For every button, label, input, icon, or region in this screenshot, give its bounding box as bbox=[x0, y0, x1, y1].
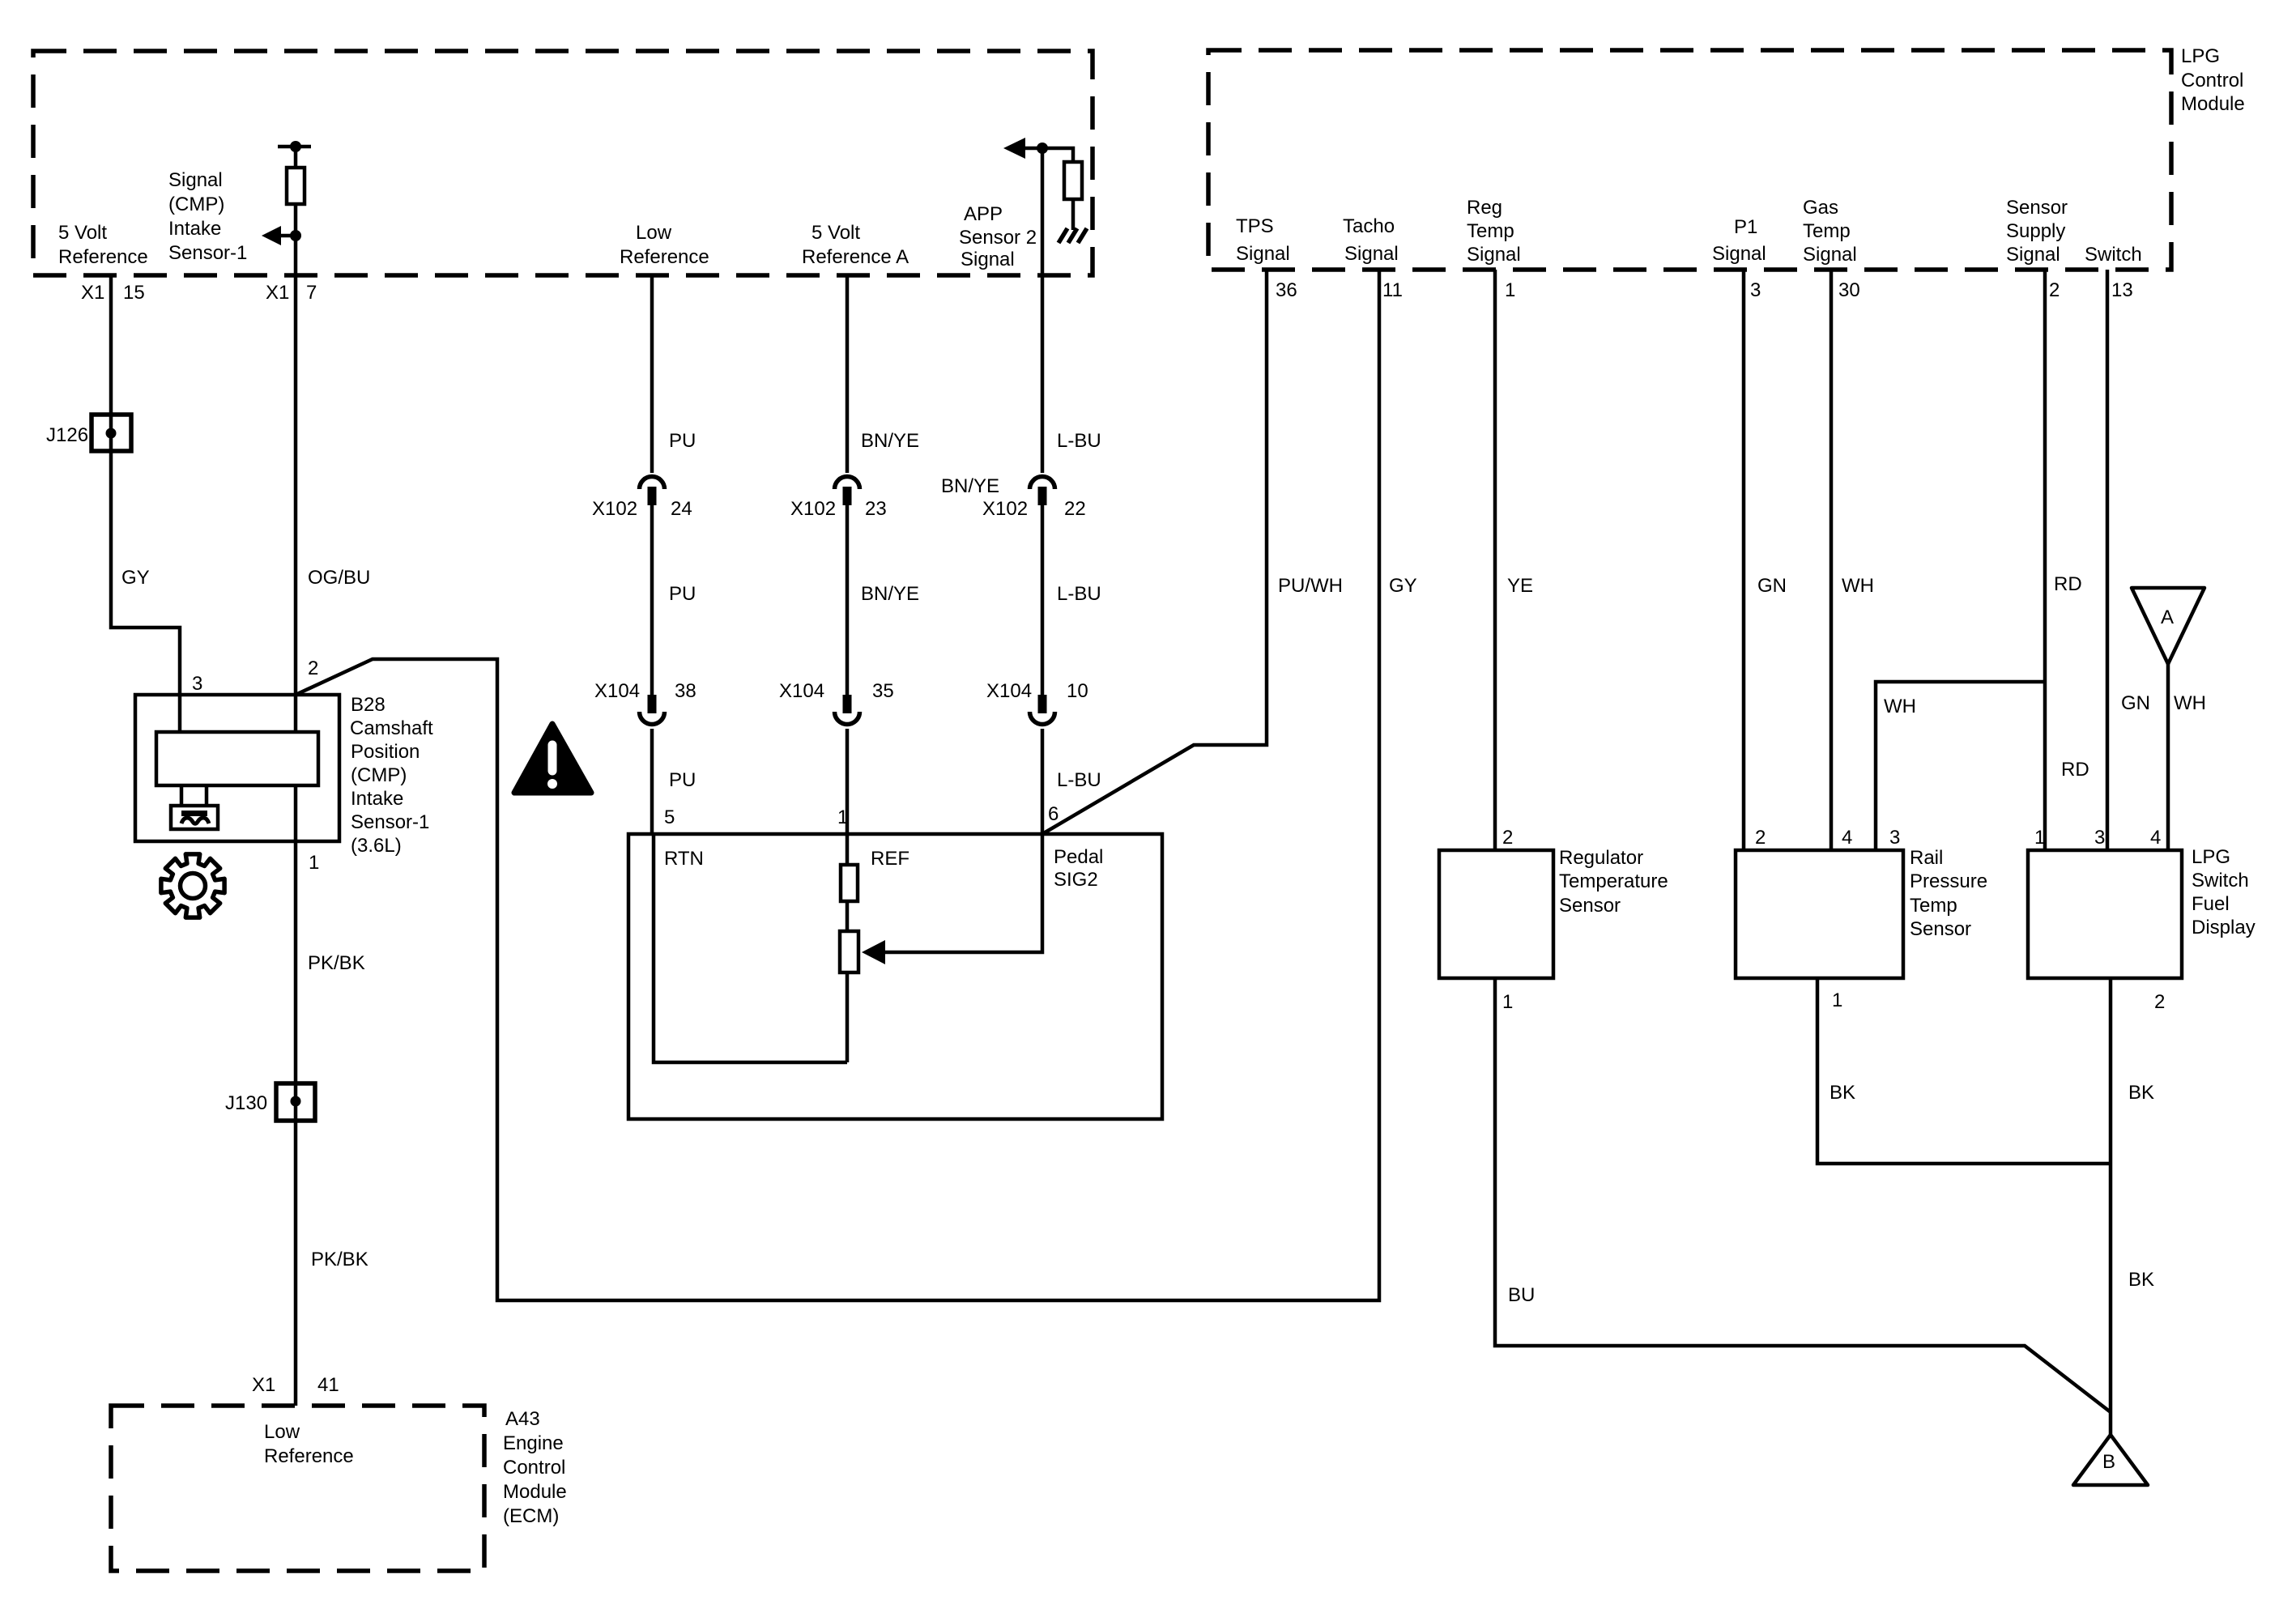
svg-text:BK: BK bbox=[2128, 1082, 2154, 1104]
svg-text:1: 1 bbox=[2034, 827, 2045, 849]
svg-text:22: 22 bbox=[1064, 498, 1086, 520]
svg-text:5 Volt: 5 Volt bbox=[58, 222, 107, 244]
svg-text:Sensor-1: Sensor-1 bbox=[168, 242, 247, 264]
svg-text:1: 1 bbox=[309, 852, 319, 874]
svg-text:Intake: Intake bbox=[351, 788, 403, 810]
svg-text:Temperature: Temperature bbox=[1559, 870, 1668, 892]
svg-text:1: 1 bbox=[837, 806, 848, 828]
svg-text:Temp: Temp bbox=[1803, 220, 1851, 242]
svg-text:Supply: Supply bbox=[2006, 220, 2065, 242]
svg-text:Reference: Reference bbox=[620, 246, 709, 268]
svg-text:Module: Module bbox=[2181, 93, 2245, 115]
svg-text:PU: PU bbox=[669, 583, 696, 605]
svg-text:WH: WH bbox=[2174, 692, 2206, 714]
svg-text:Signal: Signal bbox=[1236, 243, 1290, 265]
svg-text:APP: APP bbox=[964, 203, 1003, 225]
svg-text:4: 4 bbox=[1842, 827, 1852, 849]
svg-text:7: 7 bbox=[306, 282, 317, 304]
svg-text:X1: X1 bbox=[81, 282, 104, 304]
svg-text:Switch: Switch bbox=[2085, 244, 2142, 266]
svg-text:OG/BU: OG/BU bbox=[308, 567, 370, 589]
svg-text:1: 1 bbox=[1832, 989, 1842, 1011]
svg-text:Low: Low bbox=[264, 1421, 300, 1443]
svg-text:Signal: Signal bbox=[2006, 244, 2060, 266]
svg-text:Fuel: Fuel bbox=[2192, 893, 2230, 915]
svg-text:J126: J126 bbox=[46, 424, 88, 446]
svg-text:Signal: Signal bbox=[1712, 243, 1766, 265]
svg-text:L-BU: L-BU bbox=[1057, 430, 1101, 452]
svg-text:3: 3 bbox=[1750, 279, 1761, 301]
svg-text:38: 38 bbox=[675, 680, 696, 702]
svg-text:3: 3 bbox=[1889, 827, 1900, 849]
svg-text:30: 30 bbox=[1838, 279, 1860, 301]
svg-text:Temp: Temp bbox=[1467, 220, 1514, 242]
svg-text:WH: WH bbox=[1884, 696, 1916, 717]
svg-text:TPS: TPS bbox=[1236, 215, 1274, 237]
svg-text:36: 36 bbox=[1276, 279, 1297, 301]
svg-text:A: A bbox=[2161, 606, 2174, 628]
svg-text:Reference: Reference bbox=[58, 246, 148, 268]
svg-text:X104: X104 bbox=[986, 680, 1032, 702]
svg-text:2: 2 bbox=[1755, 827, 1766, 849]
svg-text:L-BU: L-BU bbox=[1057, 769, 1101, 791]
svg-text:Sensor: Sensor bbox=[2006, 197, 2068, 219]
svg-text:Reference A: Reference A bbox=[802, 246, 909, 268]
svg-text:2: 2 bbox=[308, 657, 318, 679]
svg-text:YE: YE bbox=[1507, 575, 1533, 597]
svg-text:LPG: LPG bbox=[2181, 45, 2220, 67]
svg-text:10: 10 bbox=[1067, 680, 1088, 702]
svg-text:Display: Display bbox=[2192, 917, 2256, 938]
svg-text:Temp: Temp bbox=[1910, 895, 1957, 917]
svg-text:LPG: LPG bbox=[2192, 846, 2230, 868]
svg-text:5 Volt: 5 Volt bbox=[811, 222, 860, 244]
svg-text:1: 1 bbox=[1505, 279, 1515, 301]
svg-text:BN/YE: BN/YE bbox=[861, 430, 919, 452]
svg-text:Engine: Engine bbox=[503, 1432, 564, 1454]
svg-text:Signal: Signal bbox=[168, 169, 223, 191]
svg-text:Switch: Switch bbox=[2192, 870, 2249, 891]
svg-text:2: 2 bbox=[2049, 279, 2060, 301]
svg-text:GY: GY bbox=[121, 567, 150, 589]
svg-text:WH: WH bbox=[1842, 575, 1874, 597]
svg-text:Signal: Signal bbox=[1467, 244, 1521, 266]
svg-text:Reg: Reg bbox=[1467, 197, 1502, 219]
svg-text:PU: PU bbox=[669, 430, 696, 452]
svg-text:PU: PU bbox=[669, 769, 696, 791]
svg-text:Regulator: Regulator bbox=[1559, 847, 1643, 869]
svg-text:Signal: Signal bbox=[1803, 244, 1857, 266]
svg-text:P1: P1 bbox=[1734, 216, 1757, 238]
svg-text:Intake: Intake bbox=[168, 218, 221, 240]
svg-text:3: 3 bbox=[192, 673, 202, 695]
svg-text:X1: X1 bbox=[266, 282, 289, 304]
svg-text:Control: Control bbox=[2181, 70, 2243, 91]
svg-text:X104: X104 bbox=[594, 680, 640, 702]
svg-text:X104: X104 bbox=[779, 680, 824, 702]
svg-text:Pressure: Pressure bbox=[1910, 870, 1987, 892]
svg-text:13: 13 bbox=[2111, 279, 2133, 301]
svg-text:GN: GN bbox=[1757, 575, 1787, 597]
svg-text:Gas: Gas bbox=[1803, 197, 1838, 219]
svg-text:BK: BK bbox=[1830, 1082, 1855, 1104]
svg-text:X102: X102 bbox=[790, 498, 836, 520]
svg-text:(CMP): (CMP) bbox=[351, 764, 407, 786]
svg-text:X102: X102 bbox=[592, 498, 637, 520]
svg-text:5: 5 bbox=[664, 806, 675, 828]
svg-text:1: 1 bbox=[1502, 991, 1513, 1013]
svg-text:L-BU: L-BU bbox=[1057, 583, 1101, 605]
svg-text:Pedal: Pedal bbox=[1054, 846, 1103, 868]
svg-text:Signal: Signal bbox=[1344, 243, 1399, 265]
svg-text:PU/WH: PU/WH bbox=[1278, 575, 1343, 597]
svg-text:B: B bbox=[2102, 1451, 2115, 1473]
svg-text:2: 2 bbox=[1502, 827, 1513, 849]
svg-text:BU: BU bbox=[1508, 1284, 1535, 1306]
svg-text:24: 24 bbox=[671, 498, 692, 520]
svg-text:(ECM): (ECM) bbox=[503, 1505, 559, 1527]
svg-text:Camshaft: Camshaft bbox=[350, 717, 433, 739]
svg-text:Sensor: Sensor bbox=[1910, 918, 1971, 940]
svg-text:B28: B28 bbox=[351, 694, 386, 716]
svg-text:PK/BK: PK/BK bbox=[308, 952, 365, 974]
svg-text:GN: GN bbox=[2121, 692, 2150, 714]
svg-text:(CMP): (CMP) bbox=[168, 194, 224, 215]
svg-text:Position: Position bbox=[351, 741, 420, 763]
svg-text:Sensor 2: Sensor 2 bbox=[959, 227, 1037, 249]
svg-text:BK: BK bbox=[2128, 1269, 2154, 1291]
svg-text:GY: GY bbox=[1389, 575, 1417, 597]
svg-text:RTN: RTN bbox=[664, 848, 704, 870]
svg-text:REF: REF bbox=[871, 848, 909, 870]
svg-text:X1: X1 bbox=[252, 1374, 275, 1396]
svg-text:BN/YE: BN/YE bbox=[861, 583, 919, 605]
svg-text:4: 4 bbox=[2150, 827, 2161, 849]
svg-text:Tacho: Tacho bbox=[1343, 215, 1395, 237]
svg-text:6: 6 bbox=[1048, 803, 1059, 825]
svg-text:Low: Low bbox=[636, 222, 672, 244]
svg-text:11: 11 bbox=[1382, 279, 1403, 301]
svg-text:(3.6L): (3.6L) bbox=[351, 835, 402, 857]
svg-text:RD: RD bbox=[2054, 573, 2082, 595]
svg-text:A43: A43 bbox=[505, 1408, 540, 1430]
svg-text:41: 41 bbox=[317, 1374, 339, 1396]
svg-text:Sensor: Sensor bbox=[1559, 895, 1621, 917]
svg-text:Sensor-1: Sensor-1 bbox=[351, 811, 429, 833]
svg-text:Reference: Reference bbox=[264, 1445, 354, 1467]
svg-text:2: 2 bbox=[2154, 991, 2165, 1013]
svg-text:RD: RD bbox=[2061, 759, 2089, 781]
svg-text:Module: Module bbox=[503, 1481, 567, 1503]
svg-text:35: 35 bbox=[872, 680, 894, 702]
svg-text:J130: J130 bbox=[225, 1092, 267, 1114]
svg-text:Rail: Rail bbox=[1910, 847, 1943, 869]
svg-text:3: 3 bbox=[2094, 827, 2105, 849]
svg-text:Signal: Signal bbox=[961, 249, 1015, 270]
svg-text:BN/YE: BN/YE bbox=[941, 475, 999, 497]
svg-text:SIG2: SIG2 bbox=[1054, 869, 1098, 891]
svg-text:X102: X102 bbox=[982, 498, 1028, 520]
svg-text:PK/BK: PK/BK bbox=[311, 1249, 368, 1270]
svg-text:15: 15 bbox=[123, 282, 145, 304]
svg-text:Control: Control bbox=[503, 1457, 565, 1479]
svg-text:23: 23 bbox=[865, 498, 887, 520]
